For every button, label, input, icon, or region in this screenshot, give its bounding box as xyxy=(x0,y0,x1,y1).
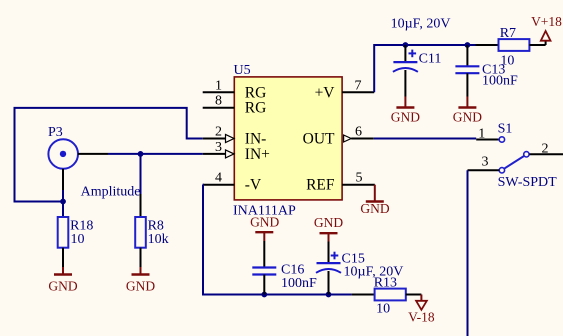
svg-text:Amplitude: Amplitude xyxy=(81,184,141,199)
svg-text:+V: +V xyxy=(315,84,336,101)
ground below R18 xyxy=(48,267,77,294)
resistor R13 xyxy=(352,276,422,317)
svg-text:OUT: OUT xyxy=(303,131,335,148)
svg-text:3: 3 xyxy=(482,155,489,170)
ground above C16 xyxy=(250,214,279,241)
svg-text:-V: -V xyxy=(245,177,262,194)
power port V-18 xyxy=(408,295,435,325)
svg-text:1: 1 xyxy=(478,127,485,142)
svg-text:GND: GND xyxy=(250,214,279,229)
svg-text:R13: R13 xyxy=(374,276,397,291)
wire OUT to S1 xyxy=(374,138,477,140)
svg-text:GND: GND xyxy=(126,279,155,294)
pin 6 OUT xyxy=(303,125,374,148)
svg-text:10: 10 xyxy=(376,302,390,317)
ground below C11 xyxy=(391,97,420,125)
junction node at R18/loop xyxy=(60,199,66,205)
svg-text:6: 6 xyxy=(355,125,362,140)
svg-text:S1: S1 xyxy=(498,122,513,137)
pin 3 IN+ xyxy=(203,140,270,163)
pin 8 RG xyxy=(203,94,267,117)
wire loop P3 shield to IN- xyxy=(15,108,203,202)
connector P3 xyxy=(48,125,108,194)
svg-text:10k: 10k xyxy=(148,232,169,247)
wire S1 pin3 down xyxy=(467,170,469,336)
pin 1 RG xyxy=(203,78,267,101)
junction node at P3/R8 xyxy=(138,151,144,157)
capacitor C11 xyxy=(393,45,442,97)
svg-text:V-18: V-18 xyxy=(408,310,435,325)
svg-text:C11: C11 xyxy=(419,52,442,67)
svg-text:GND: GND xyxy=(391,110,420,125)
svg-text:REF: REF xyxy=(306,177,335,194)
capacitor C16 xyxy=(252,241,317,295)
switch S1 SW-SPDT xyxy=(468,122,563,191)
svg-text:V+18: V+18 xyxy=(531,14,562,29)
svg-text:GND: GND xyxy=(360,201,389,216)
svg-text:U5: U5 xyxy=(234,63,251,78)
capacitor C15 xyxy=(316,242,403,295)
junction node at C15 xyxy=(326,292,332,298)
svg-text:7: 7 xyxy=(355,78,362,93)
svg-text:1: 1 xyxy=(215,78,222,93)
junction node at C13 xyxy=(465,42,471,48)
op-amp U1 body (INA111AP U5) xyxy=(234,77,342,200)
svg-text:2: 2 xyxy=(542,141,549,156)
svg-text:10: 10 xyxy=(71,232,85,247)
svg-text:4: 4 xyxy=(215,171,222,186)
wire P3 to IN+ xyxy=(108,153,203,155)
svg-text:10: 10 xyxy=(500,54,514,69)
ground above C15 xyxy=(314,215,343,242)
svg-text:SW-SPDT: SW-SPDT xyxy=(498,175,558,190)
svg-text:3: 3 xyxy=(215,140,222,155)
wire P3 down to R18 xyxy=(62,190,64,217)
svg-text:RG: RG xyxy=(245,100,267,117)
svg-text:2: 2 xyxy=(215,125,222,140)
junction node at C16 xyxy=(261,292,267,298)
resistor R8 xyxy=(135,194,168,267)
pin 5 REF xyxy=(306,171,375,194)
capacitor C13 xyxy=(455,45,518,97)
svg-text:GND: GND xyxy=(48,279,77,294)
junction node at C11 xyxy=(403,42,409,48)
svg-text:100nF: 100nF xyxy=(281,276,317,291)
svg-text:10µF, 20V: 10µF, 20V xyxy=(391,17,451,32)
resistor R18 xyxy=(58,217,94,267)
svg-text:5: 5 xyxy=(356,171,363,186)
ground below C13 xyxy=(453,97,482,125)
power port V+18 xyxy=(531,14,562,45)
wire R8 drop xyxy=(140,154,142,194)
svg-text:R7: R7 xyxy=(500,26,516,41)
svg-text:8: 8 xyxy=(215,94,222,109)
pin 4 -V xyxy=(203,171,262,194)
wire -V rail xyxy=(203,185,352,295)
resistor R7 xyxy=(476,26,546,69)
svg-text:GND: GND xyxy=(314,215,343,230)
svg-text:100nF: 100nF xyxy=(482,74,518,89)
wire +V to top rail xyxy=(374,45,475,92)
svg-text:P3: P3 xyxy=(48,125,63,140)
pin 2 IN- xyxy=(203,125,267,148)
ground at REF pin5 xyxy=(360,185,389,216)
svg-text:IN+: IN+ xyxy=(245,146,270,163)
svg-text:GND: GND xyxy=(453,110,482,125)
pin 7 +V xyxy=(315,78,375,101)
ground below R8 xyxy=(126,267,155,294)
